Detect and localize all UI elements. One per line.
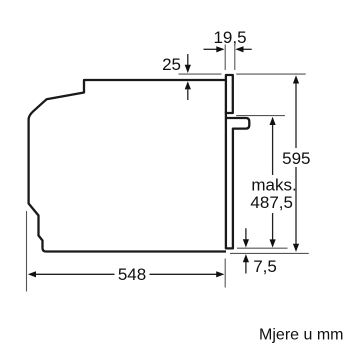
dim 7,5 lower arrow <box>245 262 247 274</box>
panel-top reference line right segment (595 top ref) <box>236 73 306 75</box>
dim 25 lower arrow <box>187 90 189 101</box>
dim 7,5 upper arrow <box>245 228 247 240</box>
svg-text:7,5: 7,5 <box>253 257 277 276</box>
svg-text:maks.: maks. <box>251 176 296 195</box>
svg-text:Mjere u mm: Mjere u mm <box>259 327 343 344</box>
dim 548 line with arrows <box>35 273 115 275</box>
svg-text:19,5: 19,5 <box>213 28 246 47</box>
oven door with handle <box>226 112 249 248</box>
dim 548 left extension line <box>26 211 28 292</box>
maks top reference line <box>236 115 285 117</box>
svg-text:595: 595 <box>282 149 310 168</box>
dim 25 upper arrow <box>187 54 189 65</box>
dim maks 487,5 line with arrows <box>272 125 274 176</box>
dim 19,5 extension lines <box>224 45 226 71</box>
body-bottom reference line <box>230 252 309 254</box>
svg-text:25: 25 <box>162 55 181 74</box>
dim 19,5 right arrow <box>243 48 252 50</box>
svg-text:548: 548 <box>118 265 146 284</box>
dim 548 right extension line <box>224 259 226 288</box>
oven top trim panel <box>226 75 233 113</box>
dim 19,5 left arrow <box>204 48 218 50</box>
svg-text:487,5: 487,5 <box>250 193 293 212</box>
dim 595 line with arrows <box>295 83 297 148</box>
panel-top reference line left segment <box>179 73 222 75</box>
oven body outline <box>29 80 226 252</box>
door-bottom reference line <box>237 247 288 249</box>
